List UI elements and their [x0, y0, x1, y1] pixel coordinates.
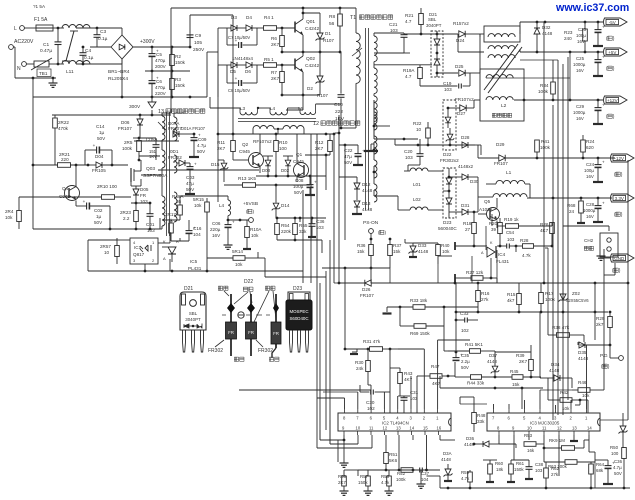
svg-text:D01A FR107: D01A FR107: [181, 126, 206, 131]
terminal L: [20, 26, 25, 31]
diode D13: [354, 201, 360, 207]
svg-text:C3: C3: [100, 29, 106, 35]
svg-text:2K7: 2K7: [271, 76, 280, 81]
svg-text:D34: D34: [551, 362, 560, 367]
connector -12V: [611, 154, 635, 162]
svg-text:D06: D06: [121, 120, 130, 125]
svg-text:2R17: 2R17: [165, 212, 176, 217]
svg-text:R69 150k: R69 150k: [410, 331, 430, 336]
svg-text:R16: R16: [481, 291, 490, 296]
svg-text:Q02: Q02: [306, 56, 315, 62]
center tap ground: [370, 144, 372, 150]
svg-text:R37: R37: [393, 243, 402, 248]
capacitor C5: [149, 53, 156, 55]
wire misc right bus: [569, 52, 571, 100]
svg-text:RK9 1M: RK9 1M: [549, 438, 565, 443]
wires above IC3: [493, 404, 495, 409]
svg-text:R51: R51: [389, 452, 398, 457]
bridge rectifier BR1-BR4: [111, 35, 133, 59]
wire: [302, 95, 304, 110]
svg-text:+: +: [235, 38, 238, 43]
svg-text:C35: C35: [461, 353, 470, 358]
svg-text:R2: R2: [175, 54, 181, 59]
svg-text:2R23: 2R23: [120, 210, 131, 215]
svg-text:11: 11: [369, 426, 374, 431]
diode D26: [365, 280, 371, 286]
wire: [486, 77, 570, 79]
IC2 TL494CN: [338, 413, 451, 431]
svg-text:1000µ: 1000µ: [583, 208, 596, 213]
connector GND: [611, 254, 635, 262]
svg-text:18k: 18k: [496, 467, 504, 472]
connector -5V: [604, 18, 628, 26]
svg-text:D05: D05: [140, 187, 149, 192]
wire: [374, 52, 404, 54]
svg-text:-5V: -5V: [609, 20, 616, 25]
svg-text:300V: 300V: [129, 104, 141, 110]
capacitor C10: [340, 52, 342, 94]
svg-text:R45: R45: [510, 369, 519, 374]
wire y312: [456, 311, 608, 313]
resistor R10A: [245, 227, 250, 238]
choke L11: [62, 25, 90, 29]
svg-text:2.2µ: 2.2µ: [461, 359, 470, 364]
capacitor C16: [186, 230, 193, 232]
optocoupler IC1: [130, 238, 158, 264]
svg-text:C54: C54: [506, 230, 515, 235]
wire: [614, 263, 616, 275]
transformer T3 standby: [162, 116, 165, 140]
wire verticals right: [594, 283, 596, 312]
connector 3.3V: [611, 194, 635, 202]
svg-text:2K7: 2K7: [338, 480, 346, 485]
wire node row: [256, 175, 326, 177]
package D23 body: [288, 292, 310, 300]
svg-text:+: +: [602, 25, 605, 30]
wire: [471, 256, 473, 283]
svg-text:GND: GND: [614, 256, 625, 261]
diode D6: [246, 62, 252, 68]
svg-text:R57: R57: [360, 474, 369, 479]
svg-text:50V: 50V: [294, 190, 303, 195]
svg-text:3040PT: 3040PT: [185, 317, 201, 322]
svg-text:R59: R59: [461, 470, 470, 475]
svg-text:L1: L1: [506, 170, 512, 176]
resistor 2R22: [54, 115, 56, 118]
wires below IC3: [498, 435, 500, 444]
svg-text:250V: 250V: [193, 47, 205, 53]
wire: [438, 255, 452, 257]
resistor R51: [384, 453, 389, 464]
svg-text:104: 104: [193, 232, 201, 237]
svg-text:D27: D27: [457, 111, 466, 116]
svg-text:R33 18k: R33 18k: [410, 298, 428, 303]
svg-text:FR302: FR302: [168, 155, 182, 160]
svg-text:4.7µ: 4.7µ: [197, 143, 206, 148]
wire: [485, 226, 487, 250]
transformer T1 lower secondaries: [374, 112, 377, 130]
svg-text:C36: C36: [614, 459, 623, 464]
choke L2 lower box: [480, 69, 524, 121]
package D21 body: [180, 292, 206, 330]
wire: [76, 27, 97, 29]
svg-text:C945: C945: [59, 194, 70, 199]
wire: [515, 246, 517, 252]
wire: [145, 70, 190, 72]
svg-text:FR302x2: FR302x2: [440, 158, 459, 163]
svg-text:R107: R107: [323, 38, 334, 43]
svg-text:R5 1: R5 1: [264, 57, 274, 62]
wire: [373, 33, 375, 36]
svg-text:C25: C25: [576, 56, 585, 61]
svg-text:N: N: [17, 66, 21, 72]
package D22 leads: [230, 294, 232, 356]
svg-text:FR302: FR302: [258, 348, 273, 354]
svg-text:+: +: [612, 461, 615, 466]
svg-text:3040PT: 3040PT: [426, 23, 442, 28]
svg-text:R54: R54: [281, 223, 290, 228]
capacitor C6: [149, 80, 156, 82]
svg-text:D12: D12: [362, 182, 371, 187]
svg-text:D35: D35: [578, 350, 587, 355]
wire left return: [32, 97, 34, 229]
svg-text:15k: 15k: [357, 249, 365, 254]
svg-text:D3: D3: [231, 15, 237, 20]
svg-text:150k: 150k: [175, 83, 186, 88]
svg-text:0.47µ: 0.47µ: [40, 48, 52, 54]
resistor R48: [472, 413, 477, 424]
svg-text:2R10 100: 2R10 100: [97, 184, 117, 189]
svg-text:27k: 27k: [481, 297, 489, 302]
svg-text:100µ: 100µ: [293, 184, 304, 189]
wire +5V rail: [458, 51, 484, 53]
svg-text:C20: C20: [404, 149, 413, 154]
svg-text:150k: 150k: [175, 60, 186, 65]
svg-text:4148: 4148: [487, 359, 497, 364]
capacitor C01: [147, 213, 154, 215]
svg-text:4.7: 4.7: [405, 19, 412, 24]
wire: [594, 462, 596, 488]
label 引脚: [218, 286, 222, 290]
svg-text:A: A: [163, 256, 166, 261]
wire: [52, 114, 171, 116]
svg-text:R: R: [176, 239, 179, 244]
svg-text:L4: L4: [219, 203, 225, 208]
svg-text:1000µ: 1000µ: [573, 110, 586, 115]
svg-text:T1: T1: [350, 15, 356, 21]
svg-text:SSP7N80A: SSP7N80A: [143, 173, 168, 179]
svg-text:L5: L5: [298, 106, 304, 111]
wire PS-ON row: [239, 389, 371, 391]
wire bus x218: [217, 52, 219, 202]
svg-text:R30: R30: [355, 360, 364, 365]
svg-text:1KV: 1KV: [335, 116, 345, 122]
diode D30: [462, 174, 468, 180]
wire: [320, 439, 338, 441]
svg-text:16k: 16k: [527, 448, 535, 453]
svg-text:D32: D32: [542, 25, 551, 30]
capacitor C35: [453, 357, 460, 359]
svg-text:100k: 100k: [540, 145, 551, 150]
resistor R69: [414, 324, 426, 329]
svg-text:50V: 50V: [97, 136, 106, 141]
wire: [547, 248, 549, 312]
svg-text:10k: 10k: [5, 215, 13, 220]
svg-text:SBL: SBL: [428, 17, 437, 22]
svg-text:R39: R39: [516, 353, 525, 358]
svg-text:103: 103: [535, 468, 543, 473]
svg-text:5K6: 5K6: [389, 458, 398, 463]
svg-text:SBL: SBL: [189, 311, 198, 316]
svg-text:16V: 16V: [212, 233, 221, 238]
wire top right area: [389, 125, 391, 127]
svg-text:220µ: 220µ: [210, 227, 221, 232]
svg-text:470µ: 470µ: [155, 85, 166, 90]
svg-text:R53: R53: [524, 433, 533, 438]
svg-text:4k7: 4k7: [507, 298, 515, 303]
svg-text:+: +: [83, 199, 86, 204]
svg-text:C33: C33: [460, 311, 469, 316]
svg-text:39: 39: [491, 227, 496, 232]
svg-text:C16: C16: [193, 226, 202, 231]
package D21 legs: [183, 330, 186, 352]
wire: [218, 27, 231, 29]
diode D25: [459, 70, 465, 76]
svg-text:C5: C5: [156, 52, 162, 57]
ground: [52, 78, 54, 83]
svg-text:D31: D31: [461, 203, 470, 208]
svg-text:103: 103: [507, 237, 515, 242]
wire y145: [395, 144, 475, 146]
svg-text:R19A: R19A: [403, 68, 415, 73]
svg-text:104: 104: [421, 477, 429, 482]
svg-text:FR107x2: FR107x2: [455, 97, 474, 102]
svg-text:15: 15: [423, 426, 428, 431]
svg-text:R60: R60: [495, 461, 504, 466]
svg-text:C24: C24: [586, 162, 595, 167]
svg-text:16V: 16V: [576, 68, 584, 73]
label 侧面: [269, 357, 273, 361]
wire: [455, 283, 457, 352]
svg-text:FR302: FR302: [208, 348, 223, 354]
svg-text:R68: R68: [567, 203, 576, 208]
svg-text:-12V: -12V: [615, 156, 625, 161]
svg-text:Q4: Q4: [62, 186, 69, 191]
svg-text:R29: R29: [596, 316, 605, 321]
svg-text:240: 240: [564, 36, 572, 41]
wire: [334, 282, 339, 284]
svg-text:L02: L02: [413, 197, 421, 202]
zener: [447, 134, 453, 140]
svg-text:220k: 220k: [281, 229, 292, 234]
svg-text:R41: R41: [541, 139, 550, 144]
svg-text:4148x2: 4148x2: [458, 164, 474, 169]
svg-text:27: 27: [465, 227, 471, 232]
svg-text:100µ: 100µ: [584, 168, 594, 173]
svg-text:R19 1k: R19 1k: [504, 217, 519, 222]
svg-text:R61: R61: [516, 461, 525, 466]
svg-text:IC5: IC5: [190, 259, 198, 264]
package D23 legs: [290, 330, 293, 352]
svg-text:16V: 16V: [586, 214, 594, 219]
svg-text:C4242: C4242: [305, 26, 319, 32]
svg-text:R27 12k: R27 12k: [466, 270, 484, 275]
svg-text:C21: C21: [389, 22, 398, 27]
svg-text:2R22: 2R22: [58, 120, 69, 125]
wire: [437, 264, 439, 283]
wire vertical bus right: [557, 60, 559, 415]
wire: [579, 400, 581, 405]
svg-text:R48: R48: [477, 413, 486, 418]
svg-text:C945: C945: [239, 149, 250, 154]
svg-text:C4242: C4242: [305, 63, 319, 69]
svg-text:R18: R18: [463, 221, 472, 226]
svg-text:100k: 100k: [538, 89, 549, 94]
svg-text:C8 10µ/50V: C8 10µ/50V: [228, 88, 250, 93]
svg-text:D28: D28: [461, 135, 470, 140]
svg-text:102: 102: [461, 328, 469, 333]
resistor R43: [398, 373, 403, 384]
resistor R10: [274, 141, 279, 152]
choke L2 -5V winding: [484, 26, 520, 42]
svg-text:R47: R47: [431, 364, 440, 369]
svg-text:10k: 10k: [442, 249, 450, 254]
wire: [161, 113, 163, 116]
wire: [373, 100, 375, 139]
svg-text:100: 100: [611, 451, 619, 456]
svg-text:10k: 10k: [194, 203, 202, 208]
connector +5V: [604, 48, 628, 56]
resistor R37: [388, 245, 393, 256]
svg-text:C38: C38: [535, 462, 544, 467]
svg-text:150k: 150k: [358, 480, 368, 485]
wire HV top rail: [170, 8, 172, 113]
package side view lead: [275, 294, 277, 348]
svg-text:+: +: [93, 143, 96, 148]
svg-text:R24: R24: [586, 139, 595, 144]
wire row y388: [440, 387, 543, 389]
svg-text:C9: C9: [195, 33, 201, 39]
svg-text:C6: C6: [156, 79, 162, 84]
svg-text:92X55C5V6: 92X55C5V6: [566, 298, 589, 303]
svg-text:50V: 50V: [461, 365, 469, 370]
svg-text:D15: D15: [211, 162, 220, 167]
svg-text:4148: 4148: [441, 457, 451, 462]
diode D27: [460, 105, 466, 111]
svg-text:0D1: 0D1: [170, 149, 179, 154]
svg-text:R4 1: R4 1: [264, 15, 274, 20]
svg-text:L2: L2: [501, 103, 507, 109]
svg-text:560040C: 560040C: [438, 226, 457, 231]
svg-text:10: 10: [356, 426, 361, 431]
transistor Q4: [65, 186, 80, 201]
svg-text:10: 10: [104, 250, 110, 255]
wire +300V rail: [133, 46, 190, 48]
svg-text:R12: R12: [315, 140, 324, 145]
svg-text:4148: 4148: [418, 249, 429, 254]
svg-text:220: 220: [61, 157, 69, 162]
svg-text:4.7k: 4.7k: [381, 480, 390, 485]
connector +12V: [604, 96, 628, 104]
svg-text:16V: 16V: [576, 116, 584, 121]
wire: [189, 15, 191, 34]
svg-text:FR: FR: [140, 193, 147, 198]
svg-text:+: +: [602, 55, 605, 60]
svg-text:+: +: [602, 201, 605, 206]
resistor R2: [170, 55, 175, 66]
svg-text:4.7k: 4.7k: [461, 476, 470, 481]
svg-text:IC3 MJC30205: IC3 MJC30205: [530, 421, 560, 426]
svg-text:4.7k: 4.7k: [522, 253, 531, 258]
wire rail y134: [218, 133, 334, 135]
svg-text:+: +: [602, 160, 605, 165]
svg-text:33k: 33k: [477, 419, 485, 424]
wires below IC2: [343, 435, 345, 440]
svg-text:470µ: 470µ: [155, 58, 166, 63]
svg-text:24: 24: [569, 209, 575, 214]
svg-text:68k: 68k: [596, 468, 604, 473]
svg-text:D6: D6: [245, 69, 251, 74]
svg-text:C10: C10: [334, 102, 343, 108]
svg-text:100k: 100k: [545, 297, 556, 302]
wire -5V rail: [480, 33, 484, 35]
diode D05: [133, 189, 139, 195]
svg-text:D23: D23: [293, 286, 302, 292]
svg-text:103: 103: [444, 87, 452, 92]
svg-text:12: 12: [313, 121, 319, 127]
wire bus x339: [338, 115, 340, 283]
resistor R40: [436, 245, 441, 256]
svg-text:PL431: PL431: [188, 266, 202, 271]
svg-text:1N4148x4: 1N4148x4: [232, 56, 253, 61]
svg-text:D14: D14: [281, 203, 290, 208]
svg-text:5R14: 5R14: [232, 249, 243, 254]
svg-text:+: +: [235, 76, 238, 81]
svg-text:D22: D22: [244, 279, 253, 285]
svg-text:D30: D30: [470, 179, 479, 184]
svg-text:D36: D36: [466, 436, 475, 441]
svg-text:L4: L4: [270, 106, 276, 111]
label 正面: [234, 357, 238, 361]
svg-text:2K7: 2K7: [271, 42, 280, 47]
svg-text:D1: D1: [325, 31, 331, 36]
svg-text:C02: C02: [94, 208, 103, 213]
wire rail: [190, 14, 233, 16]
svg-text:D13: D13: [362, 201, 371, 206]
svg-text:2.2: 2.2: [123, 216, 130, 221]
resistor R44: [471, 375, 482, 380]
package D21 diode marks: [184, 324, 202, 329]
wire +12V rail: [474, 99, 480, 101]
svg-text:100: 100: [279, 146, 287, 151]
choke L2 +5V winding: [488, 46, 515, 49]
svg-text:16V: 16V: [586, 174, 594, 179]
zener D right: [620, 426, 626, 432]
svg-text:4148: 4148: [578, 356, 589, 361]
wire: [117, 239, 130, 241]
wire: [389, 268, 391, 283]
svg-text:L11: L11: [66, 69, 74, 75]
svg-text:R8: R8: [329, 14, 335, 20]
package D22 FR bodies: [226, 322, 237, 339]
svg-text:C14: C14: [96, 124, 105, 129]
svg-text:D04: D04: [95, 154, 104, 159]
svg-text:16: 16: [437, 426, 442, 431]
svg-text:4.7: 4.7: [405, 74, 412, 79]
svg-text:+5VSB: +5VSB: [243, 201, 258, 207]
svg-text:10k: 10k: [562, 406, 570, 411]
svg-text:56: 56: [329, 21, 335, 27]
